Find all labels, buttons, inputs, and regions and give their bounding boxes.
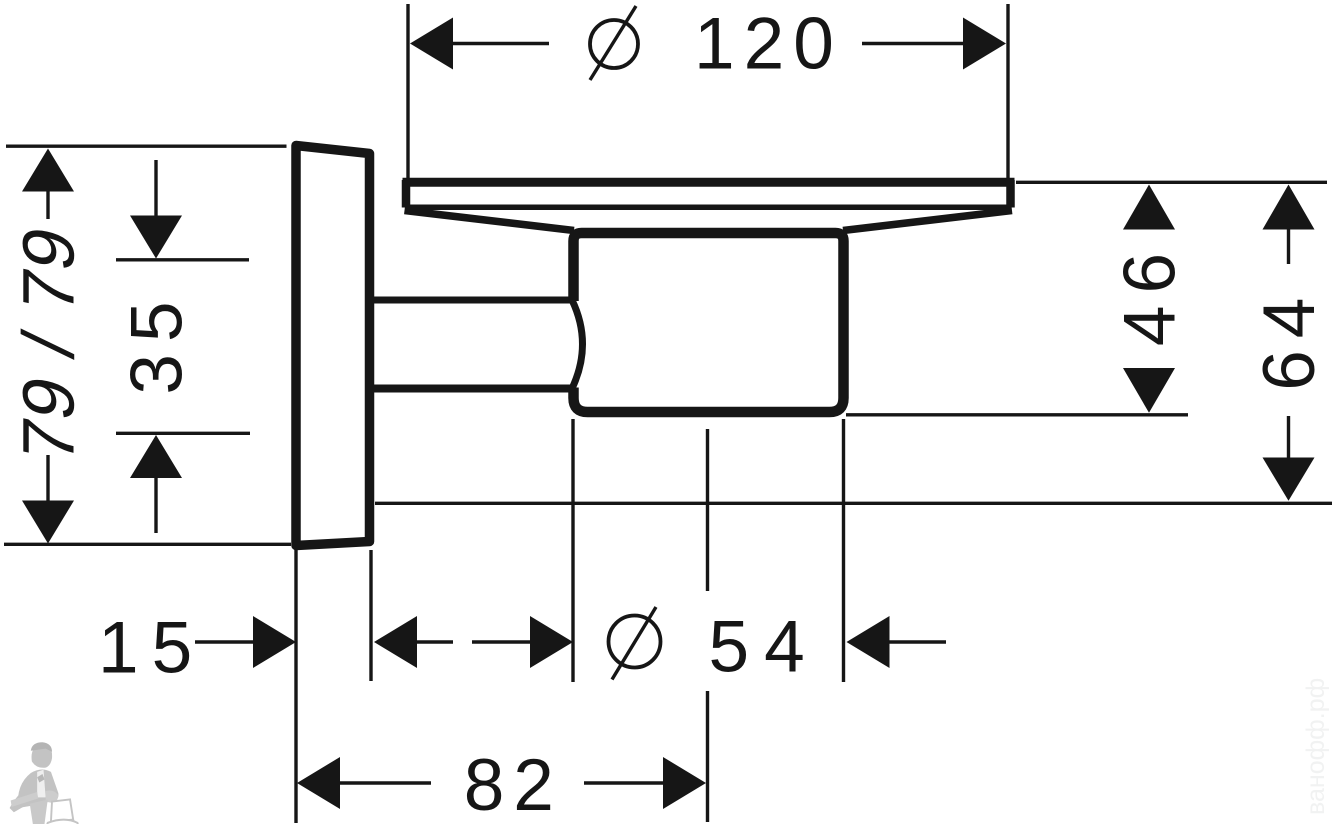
dim 64 down arrow	[1287, 416, 1290, 458]
ext line right of dia120	[1006, 4, 1009, 179]
dim 15 arrow	[195, 640, 254, 643]
ref line 35 upper	[116, 258, 249, 261]
ext line x296	[294, 549, 297, 823]
dish left end cap	[402, 180, 411, 208]
svg-text:35: 35	[117, 289, 198, 394]
ref line top left (y146)	[6, 144, 287, 147]
cup centerline	[706, 429, 709, 591]
svg-text:46: 46	[1110, 241, 1191, 346]
svg-text:79 / 79: 79 / 79	[7, 218, 89, 469]
svg-text:64: 64	[1249, 286, 1330, 391]
dim 64 up arrow	[1263, 185, 1315, 230]
dim dia120 left arrow	[410, 18, 453, 70]
svg-text:15: 15	[98, 608, 205, 689]
watermark toilet-man logo	[10, 742, 79, 824]
ref line mid right (y415)	[846, 413, 1188, 416]
dim 35 down arrow	[154, 160, 157, 217]
ext line left of dia120	[406, 4, 409, 179]
dim 79 up arrow	[22, 149, 74, 192]
dim 82/15 left-point arrow	[374, 616, 417, 668]
dia symbol bottom	[609, 616, 661, 668]
ext line x573	[571, 419, 574, 682]
dia symbol top	[590, 20, 638, 68]
ref line 35 lower	[116, 432, 250, 435]
dish underside wedge right	[843, 211, 1012, 231]
arm bottom line	[373, 385, 571, 393]
dim 46 up arrow	[1123, 185, 1175, 230]
cup left bulge arc	[572, 300, 583, 389]
wall plate	[296, 146, 370, 546]
cup U1 outline	[574, 233, 844, 412]
dish top line	[403, 178, 1015, 187]
dim 82 left arrow	[297, 757, 340, 809]
svg-text:ванофф.рф: ванофф.рф	[1302, 678, 1330, 815]
dim dia54 right arrow	[847, 616, 890, 668]
dim 79 down arrow	[46, 455, 49, 501]
dish underside wedge left	[405, 211, 575, 231]
ref line top right (y182)	[1016, 181, 1327, 184]
svg-text:82: 82	[464, 745, 563, 824]
dim 35 up arrow	[130, 435, 182, 478]
dish right end cap	[1006, 180, 1015, 208]
dim 82 right arrow	[584, 781, 664, 784]
dim 46 down arrow	[1123, 368, 1175, 413]
svg-text:54: 54	[709, 607, 820, 688]
dim dia54 left arrow	[472, 640, 531, 643]
ext line x843	[842, 419, 845, 682]
ref line bottom left (y544)	[4, 543, 291, 546]
dish bottom line	[406, 205, 1011, 211]
ref line bottom right (y503)	[375, 502, 1332, 505]
ext line x371	[369, 550, 372, 681]
arm top line	[373, 297, 571, 304]
dim dia120 right arrow	[862, 42, 964, 45]
svg-text:120: 120	[694, 4, 843, 85]
